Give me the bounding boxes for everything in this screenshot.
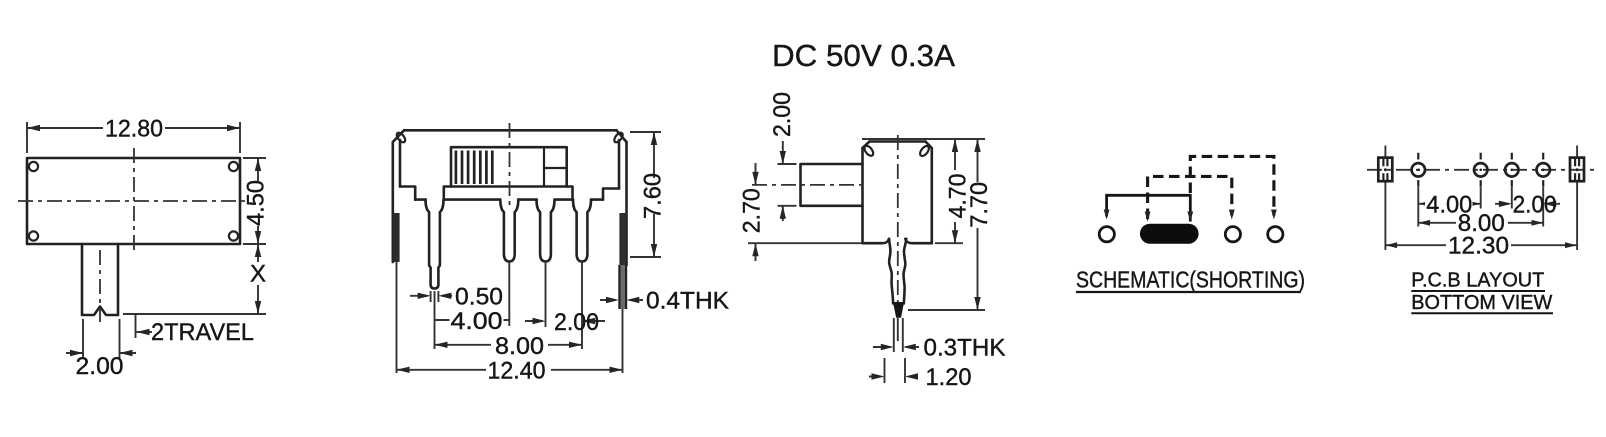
hole 1 xyxy=(1412,163,1425,176)
svg-text:12.80: 12.80 xyxy=(105,116,163,143)
svg-text:2.00: 2.00 xyxy=(554,309,599,336)
dimension X line xyxy=(257,244,259,314)
frame left outer wall / post xyxy=(391,142,394,262)
dimension 12.80 line xyxy=(27,127,240,129)
hole 4 xyxy=(1537,163,1550,176)
hole 3 xyxy=(1505,163,1518,176)
svg-text:12.30: 12.30 xyxy=(1448,233,1509,260)
frame top-left bevel xyxy=(393,130,404,142)
knob (side view) xyxy=(801,164,863,206)
dimension 4.00 xyxy=(435,319,510,321)
pin 1 xyxy=(426,200,444,289)
dimension 0.4THK xyxy=(600,299,643,301)
top extension line right xyxy=(862,138,985,140)
vertical centerline xyxy=(133,148,135,254)
extension line right tab xyxy=(622,309,624,373)
underline xyxy=(1411,312,1553,314)
svg-text:0.3THK: 0.3THK xyxy=(924,335,1006,362)
extension lines pin1 tail xyxy=(431,291,439,349)
terminal 4 xyxy=(1268,227,1283,242)
slider contact (shorting bar) xyxy=(1140,224,1199,244)
right extension lines xyxy=(243,158,266,244)
wire dashed bridge T2-T3 xyxy=(1148,176,1232,219)
dimension 8.00 xyxy=(1418,222,1543,224)
svg-text:BOTTOM VIEW: BOTTOM VIEW xyxy=(1411,292,1552,314)
dimension 2.00 xyxy=(525,320,605,322)
svg-text:7.60: 7.60 xyxy=(640,173,667,219)
body top-left ear xyxy=(863,144,875,157)
dimension 4.70 line xyxy=(954,139,956,243)
frame top-left ear xyxy=(395,131,407,144)
extension line pin3 xyxy=(545,262,547,327)
svg-text:2.70: 2.70 xyxy=(738,188,765,233)
metal frame top edge xyxy=(404,129,617,132)
dimension 4.00 xyxy=(1418,203,1480,205)
svg-text:2TRAVEL: 2TRAVEL xyxy=(151,319,254,346)
dimension 2.00 xyxy=(1495,203,1560,205)
svg-text:0.4THK: 0.4THK xyxy=(646,288,729,315)
rivet bottom-left xyxy=(29,231,38,240)
frame top-right ear xyxy=(613,131,625,144)
label underline xyxy=(1076,291,1301,293)
underline xyxy=(1411,290,1545,292)
frame right inner wall xyxy=(618,140,621,189)
frame top-right bevel xyxy=(617,130,627,142)
dimension 2.00 ticks xyxy=(778,164,797,206)
horizontal centerline xyxy=(18,200,249,202)
hole extension lines xyxy=(1418,187,1543,227)
right mounting notch step xyxy=(603,189,619,200)
terminal 1 xyxy=(1099,227,1114,242)
svg-text:2.00: 2.00 xyxy=(76,353,124,380)
svg-text:2.00: 2.00 xyxy=(1513,191,1557,218)
svg-text:4.00: 4.00 xyxy=(451,308,503,335)
rivet top-right xyxy=(229,162,238,171)
body left edge xyxy=(861,148,864,243)
svg-text:0.50: 0.50 xyxy=(455,283,503,310)
rivet top-left xyxy=(29,162,38,171)
svg-text:2.00: 2.00 xyxy=(769,92,796,137)
body bottom edge segments xyxy=(415,198,603,201)
dimension 7.60 line xyxy=(653,132,655,257)
knob horizontal centerline xyxy=(752,184,868,186)
body top-left bevel xyxy=(863,142,870,149)
pin 3 xyxy=(537,200,555,262)
body bottom edge with pin shoulders xyxy=(863,239,932,243)
knob (front view) xyxy=(451,147,567,186)
left mounting slot xyxy=(1378,158,1392,182)
vertical centerline xyxy=(509,123,511,205)
extension line pin4 xyxy=(581,262,583,349)
svg-text:1.20: 1.20 xyxy=(926,364,972,391)
body top edge xyxy=(870,140,926,143)
knob centerline xyxy=(99,250,101,322)
knob step lines xyxy=(544,147,567,186)
pin 2 xyxy=(500,200,518,262)
svg-text:7.70: 7.70 xyxy=(966,182,993,228)
knob (top view) xyxy=(82,244,118,315)
frame right outer wall / post xyxy=(625,142,628,265)
terminal 3 xyxy=(1225,227,1240,242)
centerline extension below pin xyxy=(897,318,899,341)
pin tip (dark) xyxy=(893,302,904,318)
svg-text:DC 50V 0.3A: DC 50V 0.3A xyxy=(772,38,955,73)
body vertical centerline xyxy=(897,135,899,302)
hole 2 xyxy=(1474,163,1487,176)
dimension 12.40 xyxy=(397,369,623,371)
dimension 0.3THK xyxy=(873,346,919,348)
svg-text:SCHEMATIC(SHORTING): SCHEMATIC(SHORTING) xyxy=(1076,267,1305,293)
dimension 1.20 extension lines xyxy=(885,358,906,383)
dimension 4.50 line xyxy=(257,158,259,244)
2TRAVEL extension line xyxy=(135,314,137,338)
svg-text:4.50: 4.50 xyxy=(243,180,270,226)
bottom extension 7.70 xyxy=(908,309,985,311)
right 0.4 thk tab xyxy=(620,265,625,309)
wire dashed bridge T2-T4 xyxy=(1190,156,1274,215)
bottom extension 4.70 xyxy=(935,242,963,244)
svg-text:X: X xyxy=(250,261,266,288)
rivet bottom-right xyxy=(229,231,238,240)
frame left inner wall xyxy=(399,140,402,187)
dimension 12.30 xyxy=(1385,244,1576,246)
extension line left post xyxy=(396,262,398,373)
body right edge xyxy=(930,148,933,243)
right mounting slot xyxy=(1570,158,1584,182)
dimension 1.20 xyxy=(869,376,918,378)
dimension 7.70 line xyxy=(977,139,979,310)
left mounting notch step xyxy=(400,187,415,200)
bottom reference line xyxy=(123,313,266,315)
dimension 12.80 extension lines xyxy=(27,122,240,153)
slide deck line xyxy=(444,187,573,200)
body bottom extension line left xyxy=(748,242,861,244)
dimension 2.00 arrows xyxy=(782,141,784,221)
left slot centerline xyxy=(1384,146,1386,251)
main centerline xyxy=(1367,169,1599,171)
extension line pin2 xyxy=(508,262,510,326)
dimension 2.70 arrows xyxy=(755,163,757,261)
body top-right bevel xyxy=(926,142,932,149)
svg-text:8.00: 8.00 xyxy=(495,333,544,360)
dimension 2.00 extension lines xyxy=(83,319,120,358)
2TRAVEL arrow xyxy=(137,331,153,333)
svg-text:P.C.B LAYOUT: P.C.B LAYOUT xyxy=(1411,270,1544,292)
right post shading xyxy=(619,213,626,265)
dimension 2.00 line xyxy=(66,352,136,354)
extension lines pin tip 0.3 xyxy=(894,318,903,352)
wire solid bridge T1-T2 xyxy=(1107,195,1191,221)
switch body top view outline xyxy=(27,158,240,244)
right slot centerline xyxy=(1576,146,1578,251)
pin side profile xyxy=(889,239,906,304)
svg-text:12.40: 12.40 xyxy=(488,357,546,384)
body top-right ear xyxy=(918,144,930,157)
left post shading xyxy=(393,213,399,262)
dimension 0.50 xyxy=(410,295,452,297)
knob serrations xyxy=(456,151,492,185)
dimension 7.60 extension lines xyxy=(630,132,661,257)
dimension 8.00 xyxy=(435,344,583,346)
pin 4 xyxy=(573,200,591,262)
